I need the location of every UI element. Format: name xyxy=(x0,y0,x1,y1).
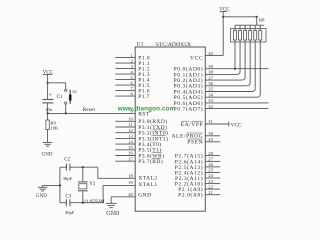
svg-text:11.0592M: 11.0592M xyxy=(84,199,105,205)
svg-text:15: 15 xyxy=(128,145,133,150)
svg-text:30pF: 30pF xyxy=(65,210,75,215)
svg-text:16: 16 xyxy=(128,151,133,156)
svg-text:40: 40 xyxy=(208,51,213,56)
svg-text:C3: C3 xyxy=(66,194,72,199)
svg-text:33: 33 xyxy=(208,98,213,103)
svg-text:25: 25 xyxy=(208,168,213,173)
svg-text:EA/VPP: EA/VPP xyxy=(181,122,204,128)
svg-text:17: 17 xyxy=(128,156,133,161)
svg-text:36: 36 xyxy=(208,81,213,86)
svg-text:24: 24 xyxy=(208,173,213,178)
svg-text:20: 20 xyxy=(128,192,133,197)
svg-text:11: 11 xyxy=(128,122,133,127)
svg-text:XTAL2: XTAL2 xyxy=(138,176,157,182)
svg-text:12: 12 xyxy=(128,128,133,133)
svg-text:STC/AT89X5X: STC/AT89X5X xyxy=(156,42,191,48)
svg-text:P3.7(RD): P3.7(RD) xyxy=(138,158,163,165)
svg-text:32: 32 xyxy=(208,104,213,109)
svg-text:35: 35 xyxy=(208,87,213,92)
svg-text:Reset: Reset xyxy=(83,107,96,113)
svg-text:19: 19 xyxy=(128,180,133,185)
svg-text:23: 23 xyxy=(208,179,213,184)
svg-text:C2: C2 xyxy=(64,157,70,162)
svg-text:18: 18 xyxy=(128,174,133,179)
svg-text:39: 39 xyxy=(208,64,213,69)
svg-text:VCC: VCC xyxy=(231,122,243,128)
svg-text:34: 34 xyxy=(208,92,213,97)
svg-text:10u: 10u xyxy=(45,107,53,112)
svg-text:38: 38 xyxy=(208,70,213,75)
svg-text:P1.7: P1.7 xyxy=(138,94,150,100)
svg-text:GND: GND xyxy=(42,152,53,157)
svg-text:GND: GND xyxy=(138,193,151,199)
svg-text:27: 27 xyxy=(208,157,213,162)
svg-text:U1: U1 xyxy=(137,41,144,47)
svg-text:www.diangon.com: www.diangon.com xyxy=(117,106,176,113)
svg-text:14: 14 xyxy=(128,139,133,144)
svg-text:P2.0(A8): P2.0(A8) xyxy=(178,192,203,199)
svg-text:R9: R9 xyxy=(50,120,56,125)
svg-text:P0.7(AD7): P0.7(AD7) xyxy=(174,106,204,113)
svg-text:30: 30 xyxy=(208,131,213,136)
svg-text:22: 22 xyxy=(208,184,213,189)
svg-text:21: 21 xyxy=(208,190,213,195)
svg-text:10K: 10K xyxy=(50,126,59,131)
svg-text:PSEN: PSEN xyxy=(187,140,203,146)
svg-text:VCC: VCC xyxy=(190,56,203,62)
svg-text:30pF: 30pF xyxy=(63,176,73,181)
svg-text:29: 29 xyxy=(208,137,213,142)
svg-text:R8: R8 xyxy=(259,18,265,23)
svg-text:31: 31 xyxy=(208,119,213,124)
svg-text:S1: S1 xyxy=(72,89,77,94)
svg-text:GND: GND xyxy=(36,194,47,199)
svg-text:26: 26 xyxy=(208,162,213,167)
svg-text:28: 28 xyxy=(208,151,213,156)
svg-text:13: 13 xyxy=(128,134,133,139)
svg-text:GND: GND xyxy=(106,211,120,217)
svg-text:Y1: Y1 xyxy=(89,182,96,187)
svg-text:10: 10 xyxy=(128,117,133,122)
svg-text:37: 37 xyxy=(208,75,213,80)
svg-text:C1: C1 xyxy=(57,95,63,100)
svg-text:XTAL1: XTAL1 xyxy=(138,182,157,188)
